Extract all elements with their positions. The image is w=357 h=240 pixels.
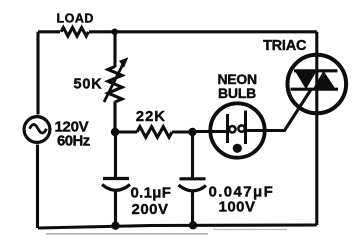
capacitor C2 0.047uF plate top xyxy=(180,177,206,180)
node junction B (22K / neon / C2) xyxy=(188,128,196,136)
neon bulb NE1 xyxy=(210,103,264,157)
capacitor C1 0.1uF plate top xyxy=(103,177,129,180)
neon electrode tip circle right xyxy=(238,125,244,131)
source V1 AC 120V 60Hz xyxy=(24,117,50,143)
wire left rail lower xyxy=(36,145,39,229)
neon gas dot xyxy=(233,144,242,153)
svg-text:50K: 50K xyxy=(74,76,103,92)
svg-text:TRIAC: TRIAC xyxy=(263,38,307,54)
potentiometer R1 50K xyxy=(108,67,122,103)
wire C1 bottom lead xyxy=(114,191,117,227)
triac triangle left (down) xyxy=(294,70,318,90)
wire neon left lead xyxy=(193,130,228,133)
wire C2 top lead xyxy=(191,132,194,179)
wire bottom rail xyxy=(38,225,317,228)
svg-text:LOAD: LOAD xyxy=(57,12,94,26)
svg-text:100V: 100V xyxy=(219,199,256,216)
node junction top (50K tap) xyxy=(111,29,118,36)
wire 50K branch top xyxy=(113,32,116,67)
wire C2 bottom lead xyxy=(191,191,194,226)
resistor LOAD xyxy=(61,27,89,36)
neon electrode left xyxy=(226,114,229,143)
wire left rail upper xyxy=(36,32,39,115)
neon electrode tip circle left xyxy=(229,126,235,132)
svg-text:0.1μF: 0.1μF xyxy=(131,185,172,202)
wire neon right lead to gate xyxy=(246,90,312,131)
scan artifact line left xyxy=(46,233,208,235)
capacitor C2 plate curved xyxy=(179,185,207,191)
wire 50K branch bottom xyxy=(113,102,116,133)
svg-text:BULB: BULB xyxy=(218,85,256,101)
wire C1 top lead xyxy=(114,132,117,179)
node junction A (50K / 22K / C1) xyxy=(111,128,119,136)
neon electrode right xyxy=(244,111,247,145)
triac Q1 xyxy=(288,55,347,114)
wire 22K right lead xyxy=(172,130,193,133)
wire top rail xyxy=(38,30,317,33)
triac bottom bar xyxy=(291,88,339,91)
triac triangle right (up) xyxy=(312,71,337,91)
node junction C2-bottom xyxy=(189,221,197,229)
wire 22K left lead xyxy=(115,130,137,133)
svg-text:22K: 22K xyxy=(136,108,166,125)
triac top bar xyxy=(294,69,338,72)
resistor R2 22K xyxy=(137,127,172,138)
svg-text:60Hz: 60Hz xyxy=(57,132,90,149)
svg-text:200V: 200V xyxy=(132,201,169,218)
node junction C1-bottom xyxy=(111,222,119,230)
scan artifact line right xyxy=(213,229,287,231)
wire right rail (through triac) xyxy=(315,32,318,225)
capacitor C1 plate curved xyxy=(102,185,130,191)
